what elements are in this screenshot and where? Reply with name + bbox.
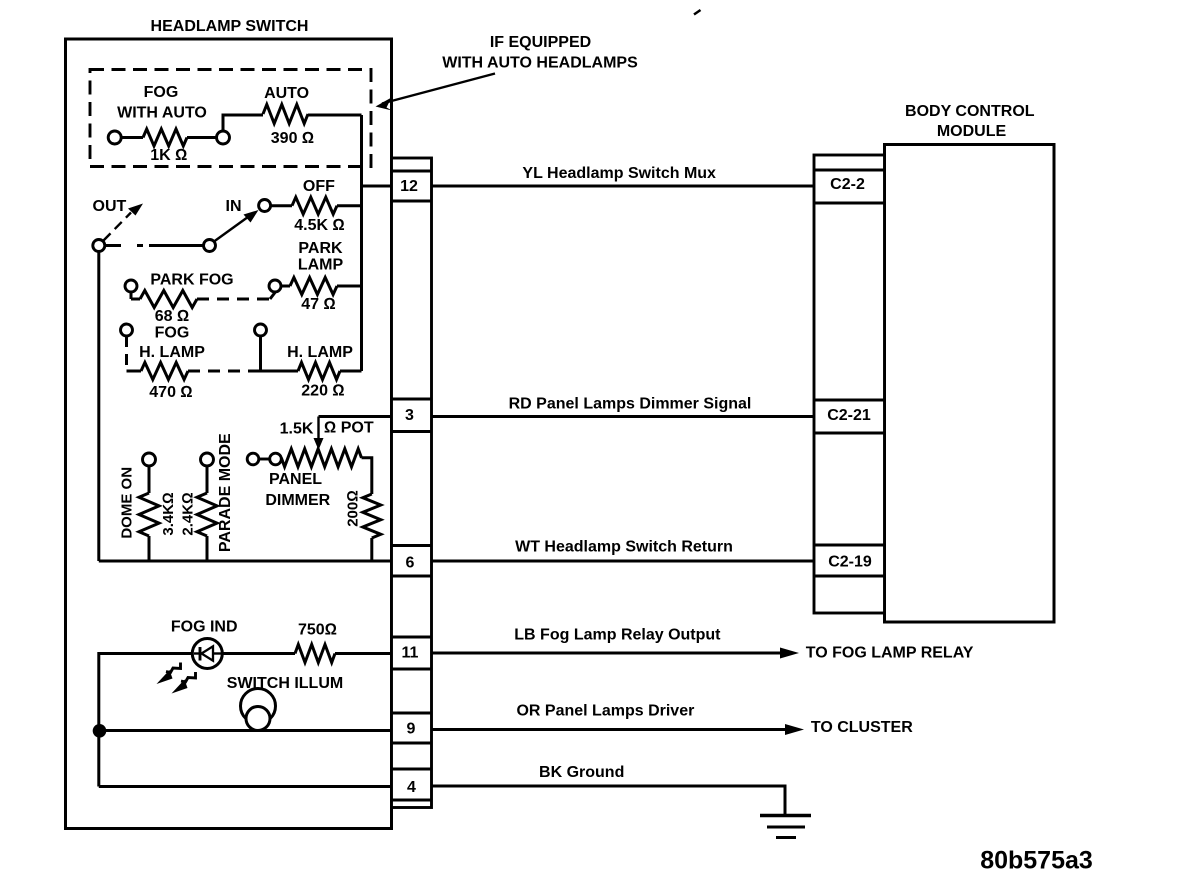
svg-text:OFF: OFF bbox=[303, 178, 335, 195]
wire OR Panel Lamps Driver bbox=[432, 724, 805, 735]
svg-text:68 Ω: 68 Ω bbox=[155, 308, 190, 325]
svg-text:12: 12 bbox=[400, 178, 418, 195]
contact OUT bbox=[93, 240, 105, 252]
svg-text:HEADLAMP SWITCH: HEADLAMP SWITCH bbox=[151, 18, 309, 35]
C2 cell divider bbox=[814, 169, 885, 172]
svg-text:3.4KΩ: 3.4KΩ bbox=[160, 492, 177, 535]
svg-text:1K Ω: 1K Ω bbox=[150, 147, 187, 164]
svg-text:H. LAMP: H. LAMP bbox=[139, 344, 205, 361]
junction dot bbox=[93, 724, 107, 738]
connector cell divider bbox=[392, 200, 432, 203]
svg-text:TO CLUSTER: TO CLUSTER bbox=[811, 719, 913, 736]
note IF EQUIPPED WITH AUTO HEADLAMPS bbox=[442, 34, 638, 72]
resistor 200 ohm bbox=[363, 494, 381, 561]
BCM connector C2 strip bbox=[814, 155, 885, 613]
C2 cell divider bbox=[814, 544, 885, 547]
contact IN bbox=[259, 200, 271, 212]
svg-text:11: 11 bbox=[402, 645, 419, 662]
C2 cell divider bbox=[814, 575, 885, 578]
connector cell divider bbox=[392, 768, 432, 771]
svg-text:DOME ON: DOME ON bbox=[118, 467, 135, 539]
wire H.LAMP contact down bbox=[252, 336, 261, 371]
svg-text:47 Ω: 47 Ω bbox=[301, 296, 336, 313]
connector cell divider bbox=[392, 544, 432, 547]
connector cell divider bbox=[392, 430, 432, 433]
svg-text:OR Panel Lamps Driver: OR Panel Lamps Driver bbox=[516, 702, 694, 719]
svg-text:PARK: PARK bbox=[298, 240, 343, 257]
svg-text:200Ω: 200Ω bbox=[345, 490, 362, 527]
svg-text:LAMP: LAMP bbox=[298, 256, 344, 273]
resistor OFF 4.5K bbox=[271, 197, 362, 214]
svg-text:9: 9 bbox=[407, 721, 416, 738]
label BODY CONTROL MODULE bbox=[905, 103, 1035, 140]
svg-text:C2-2: C2-2 bbox=[830, 176, 865, 193]
pot wiper arrow bbox=[314, 417, 324, 451]
svg-text:FOG: FOG bbox=[155, 325, 190, 342]
connector cell divider bbox=[392, 170, 432, 173]
stray scan tick mark bbox=[694, 10, 701, 15]
dashed lead from FOG contact bbox=[125, 336, 128, 371]
svg-text:750Ω: 750Ω bbox=[298, 622, 337, 639]
svg-text:MODULE: MODULE bbox=[937, 123, 1007, 140]
wire fog indicator branch bbox=[99, 654, 193, 787]
svg-text:Ω POT: Ω POT bbox=[324, 420, 374, 437]
svg-text:FOG: FOG bbox=[144, 84, 179, 101]
wire 1K to AUTO branch bbox=[223, 115, 263, 131]
resistor PARK LAMP 47 bbox=[281, 278, 362, 295]
pot terminal contacts bbox=[247, 453, 281, 465]
svg-text:IN: IN bbox=[226, 198, 242, 215]
body control module box bbox=[885, 145, 1055, 623]
svg-text:TO FOG LAMP RELAY: TO FOG LAMP RELAY bbox=[806, 644, 974, 661]
wire OUT contact down to return bus bbox=[97, 252, 100, 562]
svg-text:3: 3 bbox=[405, 407, 414, 424]
lamp SWITCH ILLUM bbox=[241, 689, 276, 731]
svg-text:YL Headlamp Switch Mux: YL Headlamp Switch Mux bbox=[522, 165, 716, 182]
connector cell divider bbox=[392, 636, 432, 639]
svg-text:2.4KΩ: 2.4KΩ bbox=[179, 492, 196, 535]
C2 cell divider bbox=[814, 432, 885, 435]
headlamp switch enclosure box bbox=[66, 39, 392, 829]
connector cell divider bbox=[392, 742, 432, 745]
resistor PARADE MODE 2.4K bbox=[197, 466, 217, 561]
svg-text:C2-21: C2-21 bbox=[827, 407, 871, 424]
headlamp switch connector strip bbox=[392, 158, 432, 808]
svg-text:AUTO: AUTO bbox=[264, 85, 309, 102]
contact DOME ON bbox=[143, 453, 156, 466]
wire pin 4 branch bbox=[99, 785, 392, 788]
switch return bus wire bbox=[99, 560, 392, 563]
contact H.LAMP bbox=[255, 324, 267, 336]
resistor FOG H.LAMP 470 bbox=[127, 363, 189, 380]
contact PARK LAMP bbox=[269, 280, 281, 292]
svg-text:OUT: OUT bbox=[93, 198, 127, 215]
label PARK LAMP bbox=[298, 240, 344, 273]
connector cell divider bbox=[392, 398, 432, 401]
svg-text:C2-19: C2-19 bbox=[828, 554, 872, 571]
LED fog indicator FOG IND bbox=[192, 639, 222, 669]
wire WT Headlamp Switch Return bbox=[432, 560, 815, 563]
connector cell divider bbox=[392, 668, 432, 671]
switch pivot contact bbox=[204, 240, 216, 252]
connector cell divider bbox=[392, 799, 432, 802]
svg-text:220 Ω: 220 Ω bbox=[301, 382, 344, 399]
svg-text:FOG IND: FOG IND bbox=[171, 619, 238, 636]
wire BK Ground bbox=[432, 786, 786, 815]
svg-text:PARADE MODE: PARADE MODE bbox=[217, 433, 234, 552]
svg-text:6: 6 bbox=[406, 555, 415, 572]
resistor PARK FOG 68 bbox=[131, 291, 197, 308]
svg-text:H. LAMP: H. LAMP bbox=[287, 344, 353, 361]
wire LB Fog Lamp Relay Output bbox=[432, 648, 800, 659]
svg-text:80b575a3: 80b575a3 bbox=[980, 847, 1093, 875]
svg-text:4: 4 bbox=[407, 779, 416, 796]
ground symbol bbox=[760, 816, 811, 838]
svg-text:BK Ground: BK Ground bbox=[539, 764, 624, 781]
svg-text:1.5K: 1.5K bbox=[280, 421, 314, 438]
connector cell divider bbox=[392, 712, 432, 715]
svg-text:DIMMER: DIMMER bbox=[265, 492, 330, 509]
svg-text:LB Fog Lamp Relay Output: LB Fog Lamp Relay Output bbox=[514, 627, 721, 644]
svg-text:PANEL: PANEL bbox=[269, 471, 322, 488]
LED light arrow 2 bbox=[172, 672, 196, 694]
wire bus to pin 12 bbox=[362, 185, 392, 188]
dashed throw toward OUT with arrowhead bbox=[104, 204, 144, 241]
contact PARK FOG bbox=[125, 280, 137, 292]
potentiometer PANEL DIMMER 1.5K bbox=[281, 449, 372, 494]
label 1.5K ohm POT bbox=[280, 420, 374, 438]
C2 cell divider bbox=[814, 399, 885, 402]
label FOG WITH AUTO bbox=[117, 84, 207, 122]
LED light arrow 1 bbox=[157, 663, 181, 685]
wire AUTO to bus bbox=[308, 114, 362, 117]
C2 cell divider bbox=[814, 202, 885, 205]
connector cell divider bbox=[392, 575, 432, 578]
svg-text:4.5K Ω: 4.5K Ω bbox=[294, 217, 345, 234]
wire pin 3 to pot wiper bbox=[319, 415, 392, 418]
svg-text:WITH AUTO: WITH AUTO bbox=[117, 105, 207, 122]
svg-text:SWITCH ILLUM: SWITCH ILLUM bbox=[227, 675, 343, 692]
bus wire vertical bbox=[360, 115, 363, 371]
dashed wire 470 to H.LAMP branch bbox=[188, 370, 252, 373]
resistor H.LAMP 220 bbox=[261, 363, 362, 380]
dashed wire to PARK LAMP contact bbox=[197, 293, 275, 300]
label PANEL DIMMER bbox=[265, 471, 330, 509]
svg-text:390 Ω: 390 Ω bbox=[271, 130, 314, 147]
svg-text:IF EQUIPPED: IF EQUIPPED bbox=[490, 34, 591, 51]
dash-dot wire OUT to pivot bbox=[105, 244, 204, 247]
leader arrow to dashed box bbox=[376, 74, 496, 111]
svg-text:470 Ω: 470 Ω bbox=[149, 384, 192, 401]
resistor AUTO 390 bbox=[263, 105, 308, 124]
resistor 1K FOG WITH AUTO bbox=[108, 129, 229, 146]
label FOG H. LAMP bbox=[139, 325, 205, 361]
svg-text:WITH AUTO HEADLAMPS: WITH AUTO HEADLAMPS bbox=[442, 55, 638, 72]
switch arm to IN with arrowhead bbox=[214, 210, 259, 242]
svg-text:PARK FOG: PARK FOG bbox=[150, 272, 233, 289]
dashed auto-headlamps option box bbox=[90, 70, 371, 167]
svg-text:BODY CONTROL: BODY CONTROL bbox=[905, 103, 1035, 120]
wire pin 9 branch bbox=[99, 729, 392, 732]
wire RD Panel Lamps Dimmer Signal bbox=[432, 415, 815, 418]
wire YL Headlamp Switch Mux bbox=[432, 185, 815, 188]
resistor DOME ON 3.4K bbox=[139, 466, 159, 561]
svg-text:WT Headlamp Switch Return: WT Headlamp Switch Return bbox=[515, 538, 733, 555]
svg-text:RD Panel Lamps Dimmer Signal: RD Panel Lamps Dimmer Signal bbox=[509, 395, 752, 412]
contact PARADE MODE bbox=[201, 453, 214, 466]
resistor 750 ohm bbox=[222, 645, 391, 663]
contact FOG H.LAMP bbox=[121, 324, 133, 336]
